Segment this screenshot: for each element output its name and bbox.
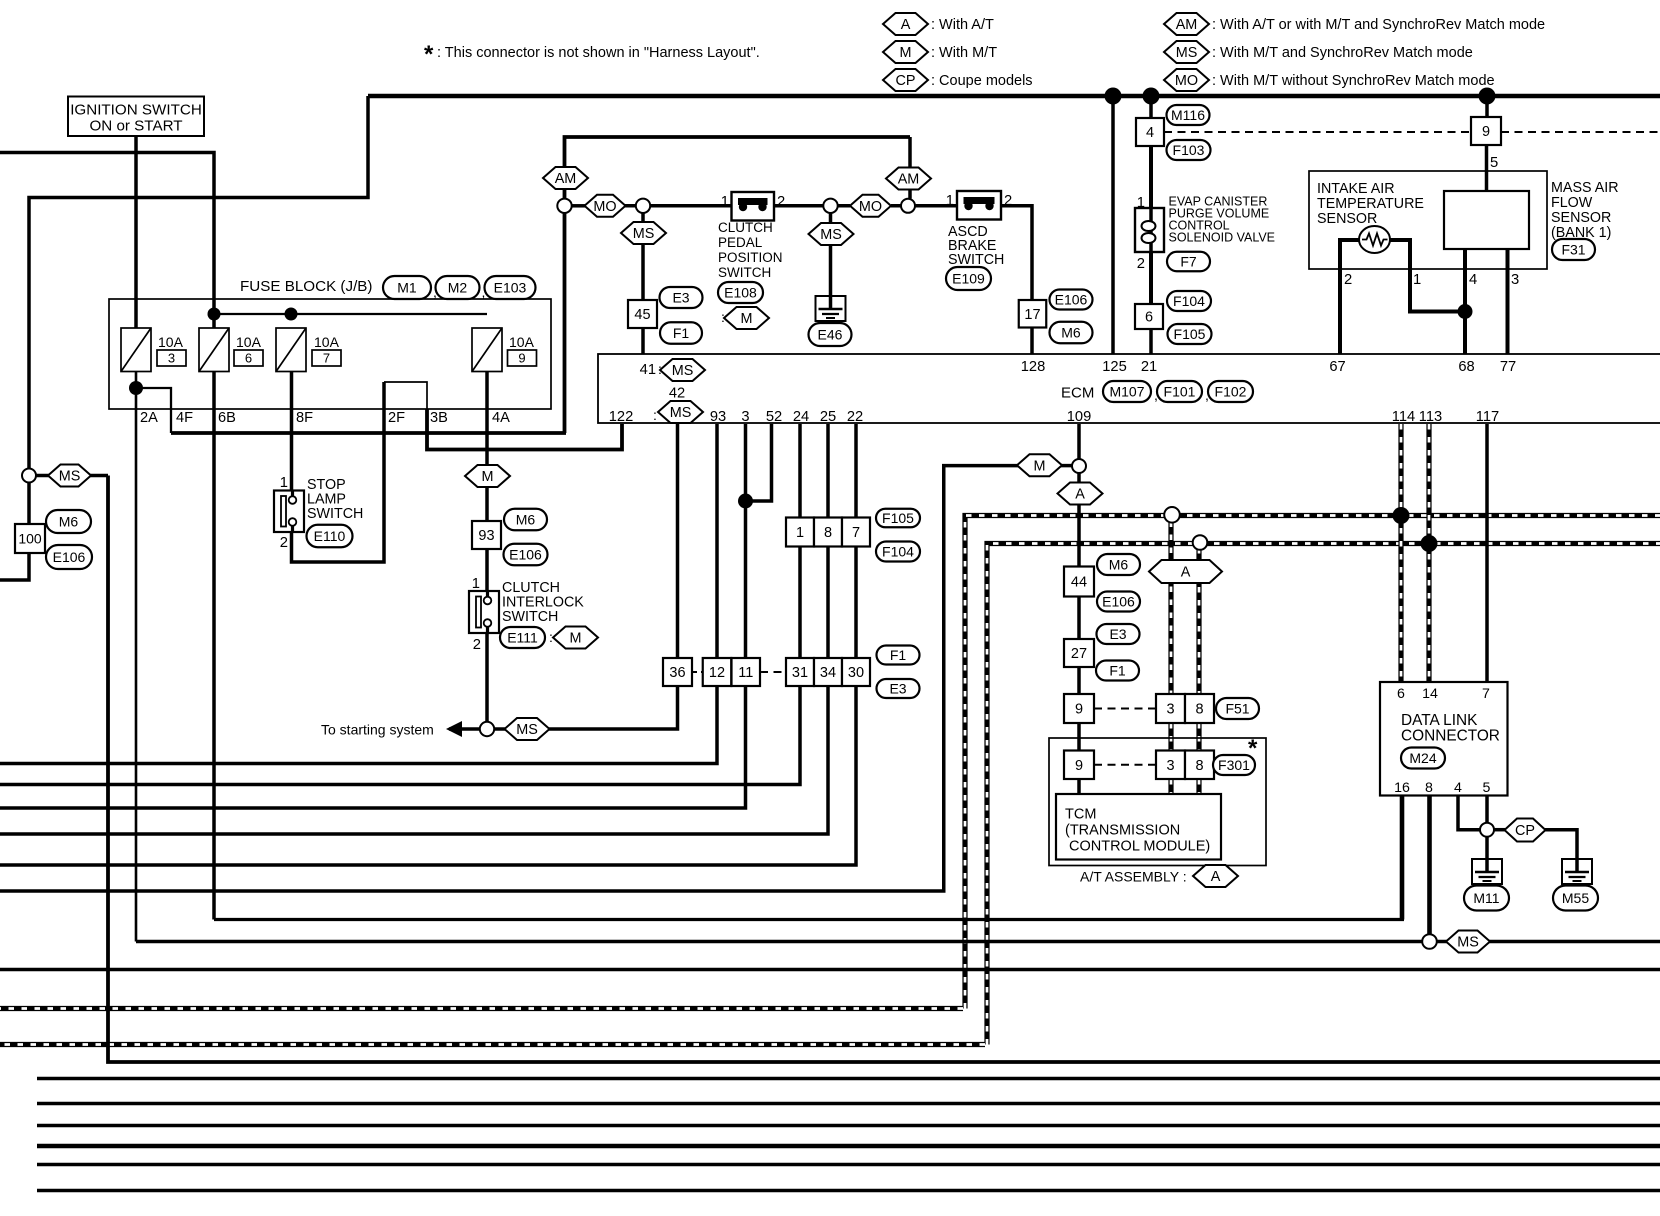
svg-text:E3: E3 bbox=[672, 290, 689, 306]
connector E106 (100 box) bbox=[46, 545, 92, 569]
junction dot IAT pin1 joins MAF pin4 bbox=[1458, 304, 1473, 319]
legend hexagon MS bbox=[1164, 41, 1209, 63]
svg-text:10A: 10A bbox=[314, 334, 340, 350]
wire ECM 52 joins wire 3 bbox=[746, 424, 772, 501]
legend hexagon CP bbox=[883, 69, 928, 91]
fuse rating box 6 bbox=[234, 350, 263, 366]
stop lamp switch symbol E110 bbox=[274, 491, 304, 533]
svg-text:CLUTCH: CLUTCH bbox=[718, 220, 773, 235]
wire terminal 36 to starting-system line bbox=[494, 686, 678, 729]
connector M6 (93 box) bbox=[504, 509, 547, 531]
wire ECM 3 to terminal 11 bbox=[744, 424, 748, 658]
ground M55 bbox=[1562, 858, 1592, 884]
svg-text:1: 1 bbox=[1137, 195, 1145, 211]
wire row y1125.5 bbox=[37, 1124, 1660, 1128]
hexagon MS ECM 41 bbox=[660, 359, 705, 381]
hexagon MS to starting system bbox=[505, 718, 550, 740]
wire terminal 44 to terminal 27 bbox=[1077, 597, 1081, 640]
MAF sensing element box bbox=[1444, 191, 1529, 249]
svg-text:MASS AIR: MASS AIR bbox=[1551, 180, 1619, 196]
svg-text:3: 3 bbox=[741, 409, 749, 425]
junction circle left MS branch bbox=[22, 469, 36, 483]
svg-text:10A: 10A bbox=[509, 334, 535, 350]
wire ASCD pin2 to terminal 128 bbox=[1001, 206, 1032, 300]
svg-text:8: 8 bbox=[1425, 780, 1433, 796]
svg-text:117: 117 bbox=[1476, 409, 1499, 425]
wire DLC 8 drop to MS junction bbox=[1427, 796, 1432, 935]
svg-text:,: , bbox=[482, 284, 486, 300]
wire terminal 31 to row2 left bbox=[0, 686, 800, 785]
connector terminal 93 bbox=[472, 521, 501, 549]
junction dot striped 114 bbox=[1393, 507, 1410, 524]
svg-text:M24: M24 bbox=[1409, 750, 1436, 766]
svg-text:MO: MO bbox=[1175, 73, 1198, 89]
wire fuse feed rail y314 bbox=[214, 313, 487, 315]
svg-text:1: 1 bbox=[1413, 272, 1421, 288]
fuse block (J/B) box bbox=[109, 299, 551, 409]
svg-text:SOLENOID VALVE: SOLENOID VALVE bbox=[1169, 231, 1276, 245]
wire DLC 16 drop bbox=[1400, 796, 1405, 920]
hexagon M on 109 branch bbox=[1017, 454, 1062, 476]
wire ECM 109 drop bbox=[1077, 424, 1081, 459]
svg-text:: Coupe models: : Coupe models bbox=[931, 73, 1033, 89]
svg-text:52: 52 bbox=[766, 409, 782, 425]
mass air flow sensor assembly box bbox=[1309, 171, 1547, 269]
hexagon AM on x910 bbox=[886, 168, 931, 190]
svg-text:36: 36 bbox=[669, 665, 685, 681]
wire ECM 93 to terminal 12 bbox=[715, 424, 719, 658]
wire EVAP solenoid pin2 to connector 6 bbox=[1149, 252, 1153, 304]
connector terminal 3 (F51) bbox=[1156, 694, 1185, 723]
wire connector 100 to left exit bbox=[0, 553, 29, 580]
wire striped 8-pin between F51 and F301 bbox=[1196, 723, 1201, 751]
connector terminal 4 bbox=[1136, 118, 1164, 146]
wire connector 4 to EVAP solenoid pin1 bbox=[1149, 146, 1153, 208]
connector F1 (31-34-30) bbox=[877, 646, 920, 665]
svg-text:(TRANSMISSION: (TRANSMISSION bbox=[1065, 823, 1180, 839]
svg-text:F105: F105 bbox=[882, 510, 914, 526]
svg-text:9: 9 bbox=[1482, 124, 1490, 140]
hexagon CP near grounds bbox=[1505, 819, 1546, 842]
svg-text:8F: 8F bbox=[296, 410, 313, 426]
dashed link 36-12 bbox=[692, 671, 703, 673]
svg-text:M55: M55 bbox=[1562, 890, 1589, 906]
wire row y1062 from x108 bbox=[108, 476, 1660, 1063]
svg-text:(BANK 1): (BANK 1) bbox=[1551, 225, 1611, 241]
dashed link 9-3 (F301) bbox=[1094, 764, 1156, 766]
connector terminal 8 (F51) bbox=[1185, 694, 1214, 723]
wire ECM 42 to terminal 36 bbox=[676, 424, 680, 658]
wire bus drop x1151 to connector 4 bbox=[1149, 96, 1153, 118]
svg-text:6: 6 bbox=[1397, 686, 1405, 702]
junction circle AM riser bbox=[557, 199, 571, 213]
wire terminal 9b to TCM bbox=[1077, 779, 1081, 795]
svg-text:8: 8 bbox=[1195, 758, 1203, 774]
svg-text::: : bbox=[549, 629, 553, 645]
wire MS drop x643 to 45 box bbox=[641, 213, 645, 300]
connector F105 (1-8-7) bbox=[876, 509, 920, 528]
wire DLC 16 line to fuse-6 wire bbox=[214, 918, 1404, 921]
clutch pedal position switch contact bbox=[732, 192, 775, 221]
wire AM riser x564.5 bbox=[565, 137, 911, 433]
wire MAF pin3 to ECM 77 bbox=[1506, 249, 1510, 355]
svg-text:M6: M6 bbox=[516, 512, 536, 528]
connector terminal 27 bbox=[1064, 639, 1094, 667]
svg-text:ECM: ECM bbox=[1061, 385, 1094, 402]
wire terminal 27 to terminal 9a bbox=[1077, 667, 1081, 694]
junction dot 2A-4F bbox=[129, 381, 143, 395]
fuse 9 10A bbox=[472, 328, 502, 372]
svg-text:CONNECTOR: CONNECTOR bbox=[1401, 728, 1500, 745]
hexagon MS below circle3 bbox=[809, 223, 854, 245]
fuse 6 10A bbox=[199, 328, 229, 372]
wire junction circle to ground M11 bbox=[1485, 837, 1489, 860]
svg-text:: This connector is not shown: : This connector is not shown in "Harnes… bbox=[437, 45, 760, 61]
junction circle AM2 drop bbox=[901, 199, 915, 213]
wire terminal 11 to row3 left bbox=[0, 686, 746, 808]
wire DLC 4 to junction circle bbox=[1458, 796, 1480, 830]
wire ECM 117 to DLC 7 bbox=[1485, 424, 1489, 682]
svg-text:F102: F102 bbox=[1215, 384, 1247, 400]
svg-text:E3: E3 bbox=[1109, 626, 1126, 642]
wire fuse bus riser at x368 bbox=[29, 96, 368, 469]
wire terminal 1 to terminal 31 bbox=[798, 547, 802, 659]
svg-text:1: 1 bbox=[946, 193, 954, 209]
wire fuse 3 output 2A bbox=[135, 370, 138, 942]
svg-text:22: 22 bbox=[847, 409, 863, 425]
connector terminal 8 (F104) bbox=[814, 518, 842, 547]
svg-text:: With M/T: : With M/T bbox=[931, 45, 997, 61]
svg-text:FLOW: FLOW bbox=[1551, 195, 1593, 211]
hexagon MS ECM 42 bbox=[658, 401, 703, 423]
svg-text:4: 4 bbox=[1146, 125, 1154, 141]
connector E46 bbox=[809, 323, 852, 346]
wire terminal 34 to row4 left bbox=[0, 686, 828, 834]
svg-text:*: * bbox=[424, 41, 434, 68]
svg-text:AM: AM bbox=[1176, 17, 1198, 33]
clutch interlock switch symbol E111 bbox=[469, 591, 499, 633]
connector F31 bbox=[1552, 239, 1595, 260]
junction dot wires 3 and 52 bbox=[738, 494, 753, 509]
wire clutch interlock pin2 to circle bbox=[485, 625, 489, 722]
connector terminal 45 bbox=[628, 300, 657, 328]
svg-text:4F: 4F bbox=[176, 410, 193, 426]
svg-text:2: 2 bbox=[1344, 272, 1352, 288]
hexagon MO right bbox=[850, 195, 891, 217]
svg-text:E108: E108 bbox=[724, 285, 757, 301]
wire 2F-3B jumper in fuse block bbox=[384, 382, 427, 409]
svg-text:F51: F51 bbox=[1225, 701, 1249, 717]
thermistor IAT sensor symbol bbox=[1359, 226, 1390, 253]
fuse rating box 7 bbox=[312, 350, 341, 366]
hexagon A for A/T assembly bbox=[1193, 865, 1238, 887]
svg-text:SWITCH: SWITCH bbox=[502, 609, 558, 625]
svg-text:27: 27 bbox=[1071, 646, 1087, 662]
svg-text:10A: 10A bbox=[158, 334, 184, 350]
connector M6 (17 box) bbox=[1050, 322, 1093, 344]
svg-text:To starting system: To starting system bbox=[321, 722, 434, 738]
svg-text:M107: M107 bbox=[1109, 384, 1144, 400]
svg-text:MO: MO bbox=[859, 199, 882, 215]
svg-text:11: 11 bbox=[738, 665, 753, 681]
wire MS drop x830.5 to ground E46 bbox=[829, 213, 833, 308]
connector M6 (44 box) bbox=[1097, 554, 1140, 575]
wire fuse 7 output 8F to stop lamp switch bbox=[290, 370, 294, 497]
wire striped branch to row striped-2 left bbox=[0, 1042, 985, 1047]
svg-text:TCM: TCM bbox=[1065, 807, 1096, 823]
svg-text:125: 125 bbox=[1102, 359, 1127, 375]
svg-text:E3: E3 bbox=[889, 681, 906, 697]
arrow to starting system bbox=[446, 721, 462, 737]
wire AM2 drop x910 bbox=[908, 137, 912, 199]
svg-text:8: 8 bbox=[824, 525, 832, 541]
hexagon M on 4A wire bbox=[465, 465, 510, 487]
svg-text:CP: CP bbox=[1515, 823, 1535, 839]
connector F101 bbox=[1157, 381, 1202, 402]
svg-text:M6: M6 bbox=[1109, 557, 1129, 573]
svg-text:ON or START: ON or START bbox=[89, 118, 182, 135]
svg-text:9: 9 bbox=[1075, 702, 1083, 718]
connector E109 bbox=[946, 267, 991, 290]
connector terminal 1 bbox=[786, 518, 814, 547]
connector terminal 12 bbox=[703, 658, 732, 686]
ground E46 bbox=[816, 295, 846, 321]
svg-text:,: , bbox=[433, 284, 437, 300]
connector F1 (45 box) bbox=[660, 322, 702, 344]
junction dot fuse rail x291 bbox=[285, 308, 298, 321]
svg-text:TEMPERATURE: TEMPERATURE bbox=[1317, 196, 1424, 212]
svg-text:16: 16 bbox=[1394, 780, 1410, 796]
wire 2A junction to 4F bbox=[136, 388, 171, 433]
svg-text:4A: 4A bbox=[492, 410, 510, 426]
hexagon MO left bbox=[585, 195, 626, 217]
junction circle DLC 4-5 bbox=[1480, 823, 1494, 837]
connector terminal 3 (F301) bbox=[1156, 751, 1185, 780]
svg-text:MS: MS bbox=[1176, 45, 1198, 61]
connector E3 (45 box) bbox=[660, 287, 703, 308]
svg-text:E106: E106 bbox=[1102, 594, 1135, 610]
svg-text:E106: E106 bbox=[53, 549, 86, 565]
hexagon AM on riser bbox=[543, 167, 588, 189]
connector terminal 6 bbox=[1135, 304, 1163, 329]
wire stop lamp switch pin2 to 2F bbox=[292, 382, 385, 562]
svg-text:12: 12 bbox=[709, 665, 725, 681]
wire ECM 22 to terminal 7 bbox=[854, 424, 858, 518]
svg-text:10A: 10A bbox=[236, 334, 262, 350]
svg-text:34: 34 bbox=[820, 665, 836, 681]
svg-text:F31: F31 bbox=[1561, 242, 1585, 258]
svg-text:FUSE BLOCK (J/B): FUSE BLOCK (J/B) bbox=[240, 278, 373, 295]
svg-text:2: 2 bbox=[473, 637, 481, 653]
connector F7 bbox=[1167, 252, 1210, 272]
svg-text:E111: E111 bbox=[507, 630, 538, 646]
svg-text:MS: MS bbox=[59, 469, 81, 485]
connector F51 bbox=[1216, 698, 1259, 719]
hexagon MS on row y941 bbox=[1446, 931, 1490, 953]
svg-text:: With A/T: : With A/T bbox=[931, 17, 994, 33]
svg-text:CP: CP bbox=[896, 73, 916, 89]
wire IAT link inside box bbox=[1340, 238, 1360, 242]
svg-text:42: 42 bbox=[669, 386, 685, 402]
wire MO line segment c bbox=[891, 204, 957, 208]
wire 45 box to ECM 41 bbox=[641, 328, 645, 355]
wire row y1164.5 bbox=[37, 1163, 1660, 1167]
svg-text:M2: M2 bbox=[448, 280, 468, 296]
legend hexagon A bbox=[883, 13, 928, 35]
wire striped TCM F51 3-pin riser bbox=[1168, 522, 1173, 695]
wire 3B drop to ECM 122 bbox=[427, 409, 622, 450]
svg-text:F104: F104 bbox=[1173, 293, 1205, 309]
connector M55 bbox=[1553, 886, 1598, 911]
svg-text:3: 3 bbox=[1166, 702, 1174, 718]
ground M11 bbox=[1472, 858, 1502, 884]
wire top power bus bbox=[368, 94, 1660, 99]
wire bus drop x1113 to ECM 125 bbox=[1111, 96, 1115, 355]
ECM box bbox=[598, 354, 1660, 423]
svg-text:,: , bbox=[1205, 387, 1209, 403]
svg-text:4: 4 bbox=[1469, 272, 1477, 288]
junction dot bus x1151 bbox=[1143, 88, 1160, 105]
connector terminal 7 (F104) bbox=[842, 518, 870, 547]
connector M116 bbox=[1167, 105, 1210, 125]
svg-text:A: A bbox=[1211, 869, 1221, 885]
svg-text:F105: F105 bbox=[1174, 326, 1206, 342]
svg-text:MS: MS bbox=[672, 363, 694, 379]
svg-text:6: 6 bbox=[245, 351, 252, 366]
svg-text:F1: F1 bbox=[1109, 663, 1126, 679]
svg-text:7: 7 bbox=[323, 351, 330, 366]
wire striped 8-pin to TCM bbox=[1196, 779, 1201, 795]
connector E108 bbox=[718, 282, 763, 303]
svg-text:SWITCH: SWITCH bbox=[948, 252, 1004, 268]
fuse 3 10A bbox=[121, 328, 151, 372]
dashed link 11-31 bbox=[760, 671, 786, 673]
svg-text:AM: AM bbox=[898, 172, 920, 188]
wire striped 3-pin to TCM bbox=[1168, 779, 1173, 795]
svg-text:A: A bbox=[901, 17, 911, 33]
wire terminal 7 to terminal 30 bbox=[854, 547, 858, 659]
svg-text:F103: F103 bbox=[1173, 142, 1205, 158]
wire row MS net y941.5 right part bbox=[1437, 940, 1660, 944]
svg-text:1: 1 bbox=[721, 194, 729, 210]
wire M branch left leg bbox=[0, 466, 1018, 891]
svg-text:3B: 3B bbox=[430, 410, 448, 426]
wire terminal 30 to row5 left bbox=[0, 686, 856, 865]
connector E106 (93 box) bbox=[504, 544, 548, 566]
legend hexagon AM bbox=[1164, 13, 1209, 35]
svg-text:5: 5 bbox=[1483, 780, 1491, 796]
connector E3 (31-34-30) bbox=[877, 679, 920, 698]
connector terminal 9 (F301 side) bbox=[1064, 751, 1094, 780]
A/T assembly box bbox=[1049, 738, 1266, 866]
svg-text:30: 30 bbox=[848, 665, 864, 681]
svg-text:5: 5 bbox=[1490, 155, 1498, 171]
svg-text:F1: F1 bbox=[673, 325, 690, 341]
hexagon A wide on TCM risers bbox=[1149, 560, 1222, 583]
wire terminal 12 to row1 left bbox=[0, 686, 717, 764]
svg-text:A: A bbox=[1181, 565, 1191, 581]
svg-text:E46: E46 bbox=[818, 327, 843, 343]
svg-text:IGNITION SWITCH: IGNITION SWITCH bbox=[70, 102, 202, 119]
hexagon A on 109 branch bbox=[1058, 483, 1103, 505]
svg-text:128: 128 bbox=[1021, 359, 1046, 375]
hexagon MS left branch bbox=[48, 465, 91, 487]
svg-text:M: M bbox=[1034, 458, 1046, 474]
wire starting system arrow lead bbox=[449, 727, 480, 731]
svg-text::: : bbox=[658, 361, 662, 377]
connector terminal 31 bbox=[786, 658, 814, 686]
junction circle row MS net bbox=[1422, 934, 1437, 949]
svg-text:M6: M6 bbox=[59, 514, 79, 530]
wire ECM 24 to terminal 1 bbox=[798, 424, 802, 518]
svg-text:,: , bbox=[1154, 387, 1158, 403]
wire fuse-block output bus y433 bbox=[171, 431, 566, 435]
svg-text:9: 9 bbox=[1075, 758, 1083, 774]
fuse 7 10A bbox=[276, 328, 306, 372]
svg-text:*: * bbox=[1248, 735, 1258, 762]
data link connector box M24 bbox=[1380, 682, 1508, 796]
svg-text:DATA LINK: DATA LINK bbox=[1401, 712, 1478, 729]
wire IAT sensor left leg pin2 bbox=[1340, 240, 1360, 355]
connector M11 bbox=[1464, 886, 1509, 911]
fuse rating box 3 bbox=[157, 350, 186, 366]
connector M2 bbox=[436, 276, 480, 299]
connector E106 (44 box) bbox=[1097, 592, 1140, 612]
svg-text:SWITCH: SWITCH bbox=[307, 506, 363, 522]
legend hexagon MO bbox=[1164, 69, 1209, 91]
wire MAF pin5 inside bbox=[1485, 189, 1489, 193]
svg-text:A: A bbox=[1075, 487, 1085, 503]
svg-text:MO: MO bbox=[593, 199, 616, 215]
svg-text:6: 6 bbox=[1145, 310, 1153, 326]
svg-text:M116: M116 bbox=[1171, 107, 1205, 123]
svg-text:114: 114 bbox=[1392, 409, 1415, 425]
wire MO line segment a bbox=[571, 204, 585, 208]
wire striped ECM 113 to DLC 14 bbox=[1426, 424, 1431, 682]
junction circle 109-M bbox=[1072, 459, 1086, 473]
svg-text:4: 4 bbox=[1454, 780, 1462, 796]
connector terminal 11 bbox=[732, 658, 761, 686]
wire row MS net y941.5 bbox=[136, 940, 1423, 944]
svg-text:100: 100 bbox=[18, 531, 42, 547]
svg-text::: : bbox=[653, 407, 657, 423]
connector F104 (1-8-7) bbox=[876, 542, 920, 562]
connector terminal 100 bbox=[15, 524, 45, 553]
connector F103 bbox=[1167, 140, 1211, 160]
junction dot striped 113 bbox=[1421, 535, 1438, 552]
connector M24 bbox=[1401, 748, 1445, 769]
svg-text:2: 2 bbox=[1137, 256, 1145, 272]
svg-text:3: 3 bbox=[1511, 272, 1519, 288]
junction dot bus x1113 bbox=[1105, 88, 1122, 105]
svg-text:PEDAL: PEDAL bbox=[718, 235, 763, 250]
svg-text:2F: 2F bbox=[388, 410, 405, 426]
svg-text:9: 9 bbox=[518, 351, 525, 366]
wire A hexagon to terminal 44 bbox=[1077, 504, 1081, 567]
ASCD brake switch contact bbox=[957, 191, 1001, 220]
svg-text:F301: F301 bbox=[1218, 757, 1250, 773]
svg-text:25: 25 bbox=[820, 409, 836, 425]
wire junction to CP hexagon bbox=[1494, 828, 1505, 832]
svg-text::: : bbox=[721, 309, 725, 325]
svg-text:E109: E109 bbox=[952, 271, 985, 287]
svg-text:E110: E110 bbox=[314, 528, 346, 544]
wire left feed at y152 bbox=[0, 153, 214, 329]
EVAP purge volume control solenoid valve coil bbox=[1135, 208, 1164, 252]
connector terminal 44 bbox=[1064, 567, 1094, 597]
connector F301 bbox=[1213, 755, 1255, 775]
connector terminal 9 (MAF) bbox=[1471, 117, 1501, 145]
